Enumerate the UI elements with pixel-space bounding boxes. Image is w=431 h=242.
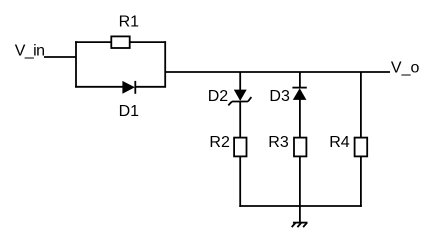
wire loop left vertical [75, 41, 77, 87]
wire branch3 top [360, 72, 362, 138]
wire bottom rail [239, 205, 361, 207]
resistor R2 [234, 138, 246, 157]
wire branch2 middle [299, 100, 301, 138]
svg-text:R4: R4 [329, 134, 350, 151]
svg-text:R3: R3 [268, 134, 289, 151]
resistor R4 [355, 138, 368, 157]
wire loop top right segment [130, 41, 167, 43]
resistor R1 [111, 36, 129, 48]
diode D3 [292, 88, 306, 100]
svg-text:R2: R2 [209, 134, 230, 151]
wire branch1 bottom [239, 156, 241, 207]
wire branch3 bottom [360, 156, 362, 207]
zener diode D2 [228, 90, 251, 106]
wire branch2 top [299, 72, 301, 88]
svg-text:D3: D3 [269, 88, 290, 105]
wire branch2 bottom to ground [299, 156, 301, 222]
ground [292, 223, 308, 228]
svg-text:D2: D2 [208, 88, 229, 105]
svg-text:V_in: V_in [15, 43, 45, 60]
wire branch1 middle [239, 102, 241, 138]
wire main output [165, 71, 390, 73]
wire loop top left segment [75, 41, 111, 43]
svg-text:V_o: V_o [391, 60, 420, 77]
wire loop bottom left segment [75, 86, 123, 88]
wire branch1 top [239, 72, 241, 90]
diode D1 [122, 81, 135, 94]
wire loop right vertical [164, 41, 166, 87]
svg-text:R1: R1 [119, 13, 140, 30]
wire loop bottom right segment [135, 86, 166, 88]
svg-text:D1: D1 [119, 103, 140, 120]
resistor R3 [294, 138, 306, 157]
wire V_in lead [44, 56, 76, 58]
